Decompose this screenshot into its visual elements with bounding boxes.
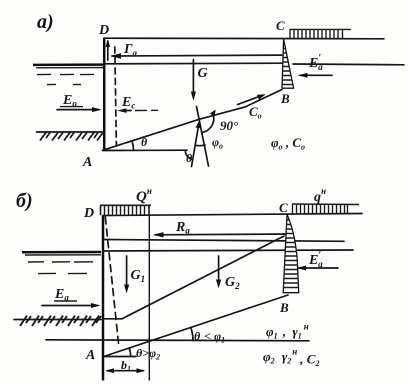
surcharge strip q (fig b right)	[292, 204, 359, 214]
dimension r_a arrow line	[111, 53, 282, 59]
svg-text:θ: θ	[141, 135, 148, 149]
force Eo arrow	[57, 107, 102, 112]
svg-text:E′а: E′а	[308, 250, 323, 269]
svg-text:D: D	[98, 23, 109, 38]
svg-text:б): б)	[16, 190, 33, 212]
weight G arrow	[191, 60, 196, 101]
weight G1 arrow	[124, 256, 129, 293]
b1 dimension arrows	[105, 368, 145, 373]
pressure diagram on wall CB (fig a)	[280, 39, 296, 88]
Eo underline	[60, 106, 83, 108]
svg-text:φо , Со: φо , Со	[271, 135, 305, 152]
reaction line L2 with up arrow	[192, 120, 201, 167]
pressure diagram on wall CB (fig b)	[280, 215, 302, 293]
ground hatch strokes (fig b)	[20, 316, 101, 327]
small up arrow at D	[106, 39, 111, 60]
weight G2 arrow	[216, 256, 221, 288]
svg-text:B: B	[279, 300, 289, 315]
left ground hatch strokes	[40, 133, 103, 141]
upper slip line segment start (horizontal bit)	[104, 318, 123, 320]
lower slip line A to B	[104, 295, 288, 357]
normal line L1 through P	[197, 107, 209, 167]
force Ea arrow (fig b)	[42, 303, 101, 308]
slip line A to B	[103, 90, 283, 151]
svg-text:90°: 90°	[220, 118, 239, 133]
left water surface double line	[33, 63, 103, 66]
svg-text:C: C	[279, 200, 288, 215]
svg-text:E′а: E′а	[308, 53, 323, 72]
water line 1 right of wall (fig b)	[103, 240, 344, 242]
svg-text:B: B	[280, 91, 290, 106]
horizontal reference line at A	[103, 149, 188, 151]
force Ec arrow (dashed, pointing left at wall)	[117, 108, 158, 113]
left water surface (fig b)	[22, 251, 101, 254]
theta < phi1 arc	[191, 327, 193, 340]
small arc at theta2	[185, 150, 192, 159]
cohesion Co arrow	[238, 94, 266, 104]
wall DA	[103, 38, 106, 151]
phi_o arc	[195, 144, 205, 147]
left ground hatch line	[37, 131, 104, 133]
wall DA (fig b)	[102, 216, 105, 381]
water level line right side	[105, 62, 283, 65]
dashed deflected wall line	[115, 47, 117, 146]
water dashes (fig b)	[28, 261, 93, 263]
force E'a arrow (fig a)	[298, 73, 332, 78]
svg-text:а): а)	[37, 11, 54, 33]
90 degree arc	[203, 114, 214, 132]
dimension R_a arrow (fig b)	[153, 232, 293, 237]
svg-text:G: G	[198, 66, 208, 81]
svg-text:А: А	[82, 155, 92, 170]
surcharge strip Q (fig b left)	[100, 205, 151, 215]
90 arc arrowhead	[210, 110, 216, 117]
theta arc at A (fig b)	[129, 348, 130, 356]
ground surface line (fig b)	[103, 214, 362, 216]
svg-text:C: C	[276, 18, 285, 33]
dashed deflected wall (fig b)	[105, 217, 119, 348]
layer boundary line	[46, 340, 309, 341]
upper slip line to B	[122, 236, 284, 319]
water dashes row 1	[37, 73, 94, 75]
water line 2 right of wall (fig b)	[103, 250, 353, 251]
svg-text:D: D	[83, 206, 94, 221]
left ground hatch line (fig b)	[14, 319, 101, 321]
theta angle arc at A	[132, 141, 134, 151]
water level line right of wall CB	[293, 63, 404, 66]
svg-text:А: А	[85, 348, 95, 363]
ground surface line D to right	[104, 37, 384, 40]
horizontal reference at A (fig b)	[104, 356, 136, 358]
svg-text:θ <φ1: θ <φ1	[194, 329, 225, 345]
Ea underline	[54, 300, 77, 302]
water dashes row 2	[47, 83, 81, 85]
b1 column line	[148, 216, 150, 381]
surcharge strip q (fig a)	[290, 29, 352, 38]
force E'a arrow (fig b)	[297, 266, 339, 271]
